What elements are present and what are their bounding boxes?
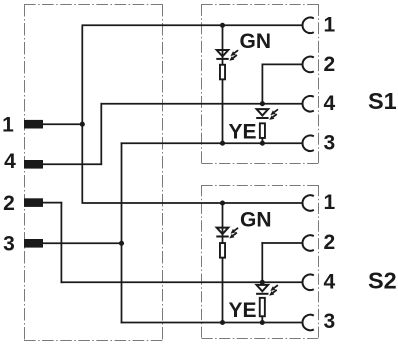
wire S1 GN chain vertical bbox=[222, 25, 224, 143]
junction S1 YE bottom bbox=[260, 141, 265, 146]
junction S1 GN bottom bbox=[220, 141, 225, 146]
resistor S2 YE bbox=[260, 298, 265, 316]
socket contact S1-2 bbox=[302, 57, 313, 73]
pin 3 contact bar bbox=[24, 239, 43, 248]
wire riser pin3 vertical (S1 row3 to S2 row3) bbox=[121, 142, 123, 323]
wire pin3 horizontal bbox=[43, 242, 122, 244]
svg-text:3: 3 bbox=[323, 310, 335, 333]
resistor S1 YE bbox=[260, 123, 265, 138]
LED GN S2 bbox=[216, 228, 238, 239]
svg-text:2: 2 bbox=[323, 53, 335, 76]
wire pin4 riser vertical bbox=[100, 103, 102, 165]
socket contact S1-4 bbox=[302, 96, 313, 112]
svg-text:1: 1 bbox=[323, 191, 335, 214]
junction S2 GN bottom bbox=[220, 320, 225, 325]
wire S2 row3 horizontal bbox=[121, 322, 303, 324]
wire S2 row4 horizontal bbox=[61, 281, 303, 283]
wire pin2 riser vertical bbox=[60, 202, 62, 283]
wire pin1 to riser bbox=[43, 123, 82, 125]
resistor S2 GN bbox=[220, 243, 225, 258]
pin 1 contact bar bbox=[24, 120, 43, 129]
wire S2 row2 drop vertical bbox=[261, 242, 263, 282]
junction pin3 riser bbox=[119, 241, 124, 246]
wire S2 row1 horizontal bbox=[82, 202, 303, 204]
wire S1 YE tail bbox=[261, 139, 263, 144]
wire pin4 horizontal bbox=[43, 163, 102, 165]
svg-text:4: 4 bbox=[4, 150, 16, 173]
wire S1 row4 horizontal bbox=[101, 103, 303, 105]
svg-text:GN: GN bbox=[240, 30, 272, 53]
socket contact S2-2 bbox=[302, 235, 313, 251]
connector housing enclosure (dash-dot border) bbox=[24, 4, 163, 341]
socket contact S1-3 bbox=[302, 135, 313, 151]
svg-text:4: 4 bbox=[323, 270, 335, 293]
svg-text:2: 2 bbox=[3, 192, 15, 215]
LED YE S2 bbox=[256, 285, 278, 296]
resistor S1 GN bbox=[220, 65, 225, 80]
svg-text:3: 3 bbox=[3, 233, 15, 256]
wire S2 YE tail bbox=[261, 317, 263, 323]
LED YE S1 bbox=[256, 109, 278, 120]
wire S1 row2 drop vertical bbox=[261, 64, 263, 104]
wire S2 GN chain vertical bbox=[222, 203, 224, 323]
LED GN S1 bbox=[216, 50, 238, 61]
svg-text:GN: GN bbox=[240, 209, 272, 232]
pin 4 contact bar bbox=[24, 160, 43, 169]
socket S2 enclosure (dash-dot box) bbox=[202, 185, 319, 339]
svg-text:3: 3 bbox=[323, 132, 335, 155]
svg-text:S1: S1 bbox=[368, 88, 397, 114]
svg-text:4: 4 bbox=[323, 92, 335, 115]
wire pin2 horizontal bbox=[43, 202, 62, 204]
wire S1 row2 from terminal to drop bbox=[262, 63, 303, 65]
junction S1 YE top bbox=[260, 101, 265, 106]
wire S2 row2 from terminal to drop bbox=[261, 242, 302, 244]
svg-text:S2: S2 bbox=[368, 267, 397, 293]
wire S1 row3 horizontal bbox=[121, 142, 303, 144]
svg-text:2: 2 bbox=[323, 231, 335, 254]
socket contact S2-3 bbox=[302, 315, 313, 331]
svg-text:YE: YE bbox=[229, 120, 257, 143]
junction S1 GN top bbox=[220, 23, 225, 28]
socket contact S2-1 bbox=[302, 195, 313, 211]
socket contact S2-4 bbox=[302, 275, 313, 291]
pin 2 contact bar bbox=[24, 198, 43, 207]
junction S2 GN top bbox=[220, 200, 225, 205]
socket S1 enclosure (dash-dot box) bbox=[202, 4, 319, 164]
junction pin1 riser bbox=[80, 122, 85, 127]
svg-text:YE: YE bbox=[229, 299, 257, 322]
wire riser pin1 vertical (up to S1 row1, down to S2 row1) bbox=[81, 25, 83, 203]
socket contact S1-1 bbox=[302, 17, 313, 33]
wire S1 row1 horizontal bbox=[82, 24, 303, 26]
svg-text:1: 1 bbox=[323, 14, 335, 37]
svg-text:1: 1 bbox=[2, 114, 14, 137]
junction S2 YE bottom bbox=[260, 320, 265, 325]
junction S2 YE top bbox=[260, 280, 265, 285]
